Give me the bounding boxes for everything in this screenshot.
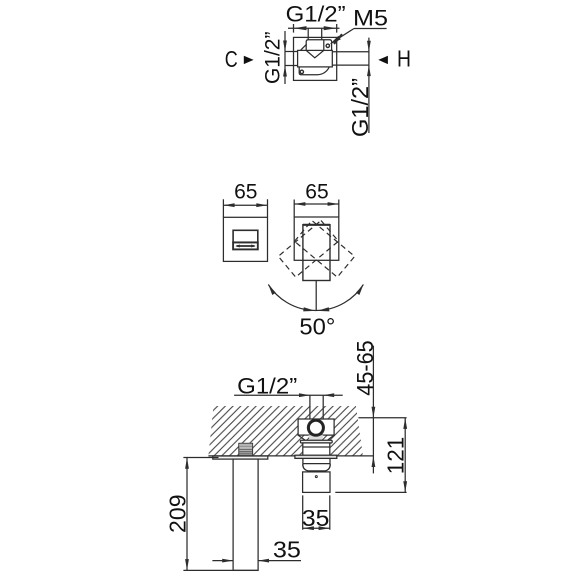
right wall plate square [294,217,339,260]
wall flange plate [295,455,337,458]
dimension G1/2 left arrows [283,41,287,77]
spout 35 dimension line [212,560,301,562]
escutcheon seam arc [310,471,325,473]
housing divider line [323,40,325,51]
svg-text:C: C [225,46,238,72]
flange bar [300,440,332,443]
bottom flange with arc [299,67,329,75]
H arrow [378,56,388,64]
left 65 extension lines [223,199,267,217]
spout window rect [233,230,258,242]
209 top extension line [183,457,218,459]
valve recess [298,419,334,435]
45-65 dimension line [372,346,374,474]
G1/2 leader line [234,394,343,396]
121 arrows [403,418,407,492]
wall hatch [208,406,363,456]
cartridge housing top block [306,40,331,51]
dimension G1/2 top arrows [294,26,337,30]
port line H lower [332,64,369,66]
svg-text:G1/2”: G1/2” [237,374,297,399]
svg-text:35: 35 [273,536,301,562]
svg-text:H: H [397,46,411,72]
handle dot [315,476,317,478]
valve body rect [298,50,333,67]
port line H upper [332,51,369,53]
svg-text:121: 121 [383,437,409,475]
svg-text:209: 209 [165,494,191,533]
chamfer line [301,44,307,50]
port line C upper [285,51,298,53]
cartridge shoulder [309,435,324,442]
svg-text:65: 65 [305,180,328,204]
valve body [303,443,330,456]
escutcheon top line [303,463,330,465]
M5 leader arrow [329,33,342,45]
dimension G1/2 right line [368,38,370,133]
handle 35 extension lines [303,495,330,529]
45-65 arrows [372,407,376,467]
flange screw hole [300,70,303,73]
50 degree arc [268,285,363,311]
right 65 extension lines [294,200,339,218]
dimension G1/2 top line [288,24,340,33]
svg-text:65: 65 [234,180,257,204]
left 65 arrows [224,203,268,207]
spout tube [233,459,258,570]
svg-text:G1/2”: G1/2” [286,2,346,27]
handle rotated dashed right [295,221,355,278]
spout bar [233,242,258,249]
svg-text:G1/2”: G1/2” [347,78,373,137]
wall bottom line [208,455,373,457]
collar [303,458,330,463]
handle center line [315,281,317,312]
left wall plate square [223,217,267,261]
svg-text:50°: 50° [299,314,335,340]
port line C lower [285,65,298,67]
recess trapezoid lines [298,435,334,440]
arc end arrows [268,284,363,311]
V notch [306,50,324,57]
valve reference line [358,417,406,419]
right 65 arrows [294,202,338,206]
supply pipe lines [310,395,323,419]
dimension G1/2 left line [284,31,286,84]
M5 leader line [340,29,387,38]
left 65 dimension line [223,204,267,206]
svg-text:G1/2”: G1/2” [261,32,285,85]
handle 35 dimension line [303,527,330,529]
valve outer square [294,37,337,80]
209 dimension line [186,458,188,571]
cartridge circle [309,420,324,435]
right 65 dimension line [294,203,339,205]
valve body seam [303,446,330,448]
escutcheon bowl [303,463,330,471]
209 arrows [185,458,189,570]
spout threaded block [239,443,253,456]
handle 35 arrows [303,526,330,530]
handle top edge emphasis [303,224,330,226]
M5 screw hole [326,44,329,47]
svg-text:M5: M5 [353,6,388,31]
aerator slot [237,245,255,247]
handle rotated dashed left [278,220,338,277]
handle side rect [303,472,330,493]
svg-text:35: 35 [302,505,330,531]
spout wall flange [213,456,268,459]
G1/2 leader arrows [299,393,334,397]
handle front rect [303,225,330,281]
bottom extension line [183,569,258,571]
handle bottom reference line [335,491,406,493]
dimension G1/2 right arrows [367,41,371,76]
dimension G1/2 top drop lines [308,28,322,40]
C arrow [244,56,254,64]
spout 35 arrows [222,559,269,563]
121 dimension line [404,418,406,493]
svg-text:45-65: 45-65 [352,340,378,396]
